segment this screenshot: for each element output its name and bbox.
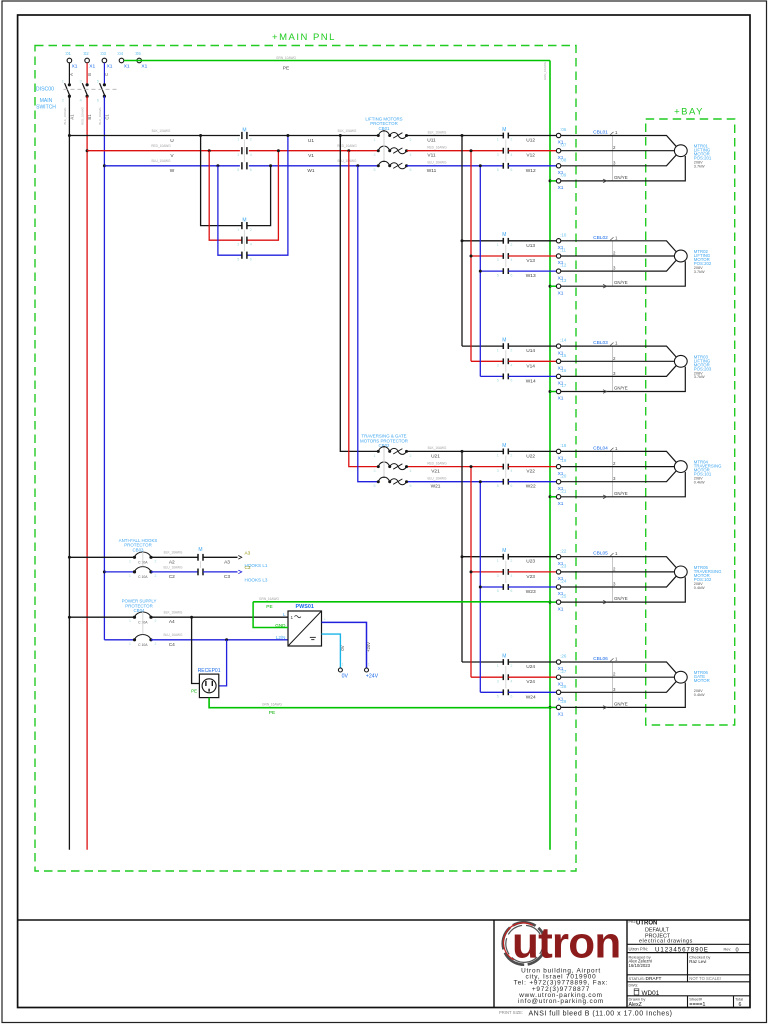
svg-text:3: 3 [497, 679, 499, 683]
svg-text:1: 1 [497, 559, 499, 563]
GN/YE arrow [603, 495, 607, 499]
wire V12 [508, 150, 556, 152]
svg-text:5: 5 [497, 484, 499, 488]
svg-text:2: 2 [410, 454, 412, 458]
svg-text::14: :14 [560, 338, 567, 343]
svg-text:U24: U24 [526, 664, 535, 670]
svg-text:3: 3 [237, 153, 239, 157]
svg-text::29: :29 [560, 699, 567, 704]
svg-text:M: M [502, 443, 506, 449]
svg-text:4: 4 [250, 242, 252, 246]
svg-text:V24: V24 [526, 679, 535, 685]
svg-text:1: 1 [497, 138, 499, 142]
svg-text::13: :13 [560, 278, 567, 283]
node W drop to M2 [216, 164, 219, 167]
svg-text:1: 1 [374, 454, 376, 458]
svg-text:RED_10AWG: RED_10AWG [81, 106, 85, 124]
contactor M2 contact pole 1/2 [241, 222, 243, 229]
svg-text:CBL05: CBL05 [593, 551, 608, 557]
svg-text:V: V [170, 153, 174, 159]
contactor M pole 1/2 for MTR05 [502, 554, 504, 560]
svg-text:RED_16AWG: RED_16AWG [427, 461, 447, 465]
svg-text:6: 6 [510, 589, 512, 593]
wire A1 (black vertical feeder) [68, 96, 70, 850]
svg-text::23: :23 [560, 564, 567, 569]
wire PE (green) vertical drop [549, 61, 551, 850]
cable CBL06 marker [612, 662, 614, 707]
wire W24 feed from riser [480, 691, 503, 693]
svg-text:3: 3 [79, 79, 82, 84]
svg-text:5: 5 [497, 589, 499, 593]
utron logo ring [498, 918, 550, 970]
wire U after M1 [249, 135, 378, 137]
motor MTR05 [674, 566, 687, 578]
wire W14 [508, 375, 556, 377]
svg-text:1: 1 [374, 138, 376, 142]
svg-text:C3: C3 [224, 574, 230, 580]
svg-text::26: :26 [560, 654, 567, 659]
svg-text::06: :06 [560, 127, 567, 132]
wire A3 with arrow HOOKS L1 [203, 556, 238, 558]
svg-text:M: M [502, 127, 506, 133]
riser red CB02 group [470, 467, 472, 678]
svg-text:1: 1 [615, 235, 618, 240]
svg-text:+MAIN PNL: +MAIN PNL [272, 32, 336, 43]
svg-text:2: 2 [155, 574, 157, 578]
svg-text:6: 6 [510, 273, 512, 277]
svg-text:1: 1 [497, 664, 499, 668]
svg-text:4: 4 [410, 153, 412, 157]
svg-text:M: M [198, 547, 202, 553]
node C4 branch to receptacle [225, 638, 228, 641]
svg-text:1: 1 [368, 663, 370, 667]
node A1-U junction [68, 134, 71, 137]
wire CBL03-1 to motor [561, 346, 676, 357]
breaker pole 2 arc [377, 465, 380, 468]
svg-text:CBL01: CBL01 [593, 130, 608, 136]
cable CBL02 marker [612, 241, 614, 286]
contactor M pole 5/6 for MTR03 [502, 374, 504, 380]
contactor M1 linkage [243, 140, 245, 162]
svg-text:NOT TO SCALE!: NOT TO SCALE! [689, 976, 721, 981]
contactor M pole 1/2 for MTR03 [502, 343, 504, 349]
svg-text::15: :15 [560, 353, 567, 358]
svg-text:3: 3 [497, 574, 499, 578]
wire W13 feed from riser [480, 270, 503, 272]
wire CBL03-3 to motor [561, 366, 676, 377]
utron logo red arc [496, 916, 549, 969]
wire CBL06-3 to motor [561, 682, 676, 693]
wire CBL06-1 to motor [561, 662, 676, 673]
node C1-W junction [103, 164, 106, 167]
svg-text:A1: A1 [69, 114, 74, 120]
svg-text:A3: A3 [224, 559, 230, 565]
wire CBL04-1 to motor [561, 451, 676, 462]
svg-text:CBL06: CBL06 [593, 656, 608, 662]
wire W13 [508, 270, 556, 272]
svg-text:BLK_16AWG: BLK_16AWG [164, 611, 183, 615]
node PE tap MTR03 [549, 390, 552, 393]
node A4 branch to receptacle [190, 616, 193, 619]
svg-text::02: :02 [83, 51, 90, 56]
node PE tap MTR05 [549, 601, 552, 604]
svg-text:V21: V21 [431, 469, 440, 475]
wire U12 feed from breaker [407, 135, 504, 137]
wire V13 [508, 255, 556, 257]
svg-text:BLK_16AWG: BLK_16AWG [428, 130, 447, 134]
svg-text:V1: V1 [308, 153, 314, 159]
wire CBL04-3 to motor [561, 471, 676, 482]
svg-text:1: 1 [615, 130, 618, 135]
svg-text:CBL03: CBL03 [593, 340, 608, 346]
wire W24 [508, 691, 556, 693]
svg-text:ANSI full bleed B (11.00 x 17.: ANSI full bleed B (11.00 x 17.00 Inches) [529, 1011, 673, 1018]
svg-text:-: - [324, 628, 326, 633]
svg-text:X1: X1 [72, 64, 78, 70]
svg-text::16: :16 [560, 368, 567, 373]
wire C1 to CB04 pole2 [104, 639, 134, 641]
svg-text:0: 0 [736, 947, 739, 953]
contactor M pole 1/2 for MTR01 [502, 133, 504, 139]
wire U22 [508, 450, 556, 452]
svg-text:GRN_10AWG: GRN_10AWG [543, 61, 547, 80]
svg-text:1: 1 [129, 574, 131, 578]
svg-text:1: 1 [237, 228, 239, 232]
wire U24 feed from riser [462, 661, 503, 663]
svg-text:2: 2 [510, 138, 512, 142]
svg-text::27: :27 [560, 669, 567, 674]
disconnect linkage (dashed) [64, 88, 117, 90]
receptacle PE wire down and green bus to bay [209, 698, 550, 708]
terminal +24V [365, 668, 369, 672]
svg-text:M: M [502, 653, 506, 659]
svg-text::12: :12 [560, 263, 567, 268]
svg-text:GRN_16AWG: GRN_16AWG [259, 597, 279, 601]
node A1 tap to CB04 [68, 616, 71, 619]
circuit breaker CB03 pole 1 [133, 556, 136, 559]
svg-text:PE: PE [283, 65, 289, 71]
svg-text:BLK_16AWG: BLK_16AWG [164, 551, 183, 555]
disconnect pole A (DISC00) [68, 63, 70, 85]
svg-text:0V: 0V [342, 673, 349, 679]
wire A4 to PWS01 L [151, 616, 288, 618]
svg-text:Raz Levi: Raz Levi [689, 959, 706, 964]
svg-text:6: 6 [739, 1002, 742, 1008]
svg-text:5: 5 [237, 168, 239, 172]
svg-text:5: 5 [97, 79, 100, 84]
svg-text:1: 1 [497, 348, 499, 352]
svg-text:W13: W13 [526, 273, 536, 279]
svg-text:4: 4 [410, 469, 412, 473]
svg-text::05: :05 [135, 51, 142, 56]
svg-text:U12: U12 [526, 138, 535, 144]
svg-text:0.4kW: 0.4kW [694, 586, 705, 590]
svg-text::01: :01 [65, 51, 72, 56]
svg-text:BLK_10AWG: BLK_10AWG [63, 107, 67, 125]
node U1 tap to CB02 [339, 134, 342, 137]
wire W14 feed from riser [480, 375, 503, 377]
svg-text:1: 1 [615, 657, 618, 662]
contactor M pole hooks L3 [197, 569, 199, 576]
svg-text:6: 6 [410, 484, 412, 488]
svg-text:5: 5 [497, 379, 499, 383]
svg-text:C4: C4 [169, 642, 175, 648]
wire CBL04-GN/YE to motor [561, 472, 686, 497]
svg-text:W24: W24 [526, 694, 536, 700]
svg-text:2: 2 [613, 356, 616, 361]
cable CBL01 marker [612, 136, 614, 181]
svg-text:L: L [283, 612, 286, 617]
svg-text:W: W [170, 168, 175, 174]
wire V14 feed from riser [471, 360, 503, 362]
wire V22 feed from breaker [407, 466, 504, 468]
breaker pole 2 arc [377, 149, 380, 152]
svg-text:MOTOR: MOTOR [694, 678, 710, 683]
node M2 blue joins U bus [286, 134, 289, 137]
wire C2 [151, 571, 198, 573]
svg-text:UTRON: UTRON [636, 921, 657, 927]
svg-text:Rev:: Rev: [724, 947, 732, 951]
svg-text:V12: V12 [526, 153, 535, 159]
svg-text:0.4kW: 0.4kW [694, 481, 705, 485]
wire V after M1 [249, 150, 378, 152]
svg-text:A3: A3 [245, 550, 251, 555]
wire CBL06-2 to motor [561, 676, 675, 678]
svg-text::19: :19 [560, 458, 567, 463]
circuit breaker CB03 pole 2 [133, 570, 136, 573]
wire CBL05-3 to motor [561, 576, 676, 587]
svg-text:BLU_16AWG: BLU_16AWG [427, 477, 447, 481]
svg-text:3: 3 [237, 242, 239, 246]
svg-text::20: :20 [560, 473, 567, 478]
wire C3 with arrow HOOKS L3 [203, 571, 238, 573]
circuit breaker CB04 pole 1 [133, 616, 136, 619]
svg-text:GRN_10AWG: GRN_10AWG [276, 56, 296, 60]
title block grid lines [627, 943, 750, 945]
svg-text:W11: W11 [427, 168, 437, 174]
wire CBL06-GN/YE to motor [561, 683, 686, 708]
contactor M2 linkage [243, 230, 245, 252]
svg-text:PWS01: PWS01 [296, 604, 314, 610]
node B1-V junction [86, 149, 89, 152]
svg-text:1: 1 [615, 341, 618, 346]
svg-text:A4: A4 [169, 619, 175, 625]
breaker pole 1 arc [377, 450, 380, 453]
svg-text:PRINT SIZE:: PRINT SIZE: [499, 1010, 523, 1015]
wire CBL05-2 to motor [561, 571, 675, 573]
contactor M1 contact pole 5/6 [241, 162, 243, 169]
contactor M pole 5/6 for MTR04 [502, 479, 504, 485]
contactor M linkage for MTR05 [505, 561, 507, 583]
svg-text:W1: W1 [307, 168, 315, 174]
cable CBL04 marker [612, 451, 614, 496]
svg-text:X1: X1 [558, 606, 564, 612]
wire V22 [508, 466, 556, 468]
disconnect pole B (DISC00) [86, 63, 88, 85]
svg-text:1: 1 [129, 619, 131, 623]
svg-text:M: M [502, 338, 506, 344]
motor MTR04 [674, 461, 687, 473]
node PE tap MTR06 [549, 706, 552, 709]
wire V23 feed from riser [471, 571, 503, 573]
contactor M pole 3/4 for MTR01 [502, 148, 504, 154]
svg-text:====1: ====1 [689, 1002, 705, 1008]
svg-text:3.7kW: 3.7kW [694, 375, 705, 379]
wire U13 [508, 240, 556, 242]
wire W23 feed from riser [480, 586, 503, 588]
node W1 tap to CB02 [356, 164, 359, 167]
svg-text:RECEP01: RECEP01 [198, 668, 221, 674]
svg-text:GRN_16AWG: GRN_16AWG [262, 703, 282, 707]
svg-text::04: :04 [117, 51, 124, 56]
contactor M linkage for MTR01 [505, 140, 507, 162]
svg-text:GN/YE: GN/YE [614, 596, 628, 601]
wire CBL04-2 to motor [561, 466, 675, 468]
svg-text:4: 4 [79, 98, 82, 103]
svg-text:W12: W12 [526, 168, 536, 174]
svg-text:5: 5 [497, 168, 499, 172]
svg-text:U13: U13 [526, 243, 535, 249]
svg-text:2: 2 [155, 642, 157, 646]
contactor M pole 3/4 for MTR05 [502, 569, 504, 575]
svg-text:C 10A: C 10A [138, 575, 148, 579]
node V1 tap to CB02 [347, 149, 350, 152]
node PE tap MTR02 [549, 285, 552, 288]
wire CBL01-1 to motor [561, 136, 676, 147]
svg-text::07: :07 [560, 142, 567, 147]
svg-text:X1: X1 [558, 396, 564, 402]
svg-text:X1: X1 [89, 64, 95, 70]
svg-text::09: :09 [560, 173, 567, 178]
svg-text:3: 3 [374, 469, 376, 473]
svg-text:MAIN: MAIN [40, 98, 53, 104]
svg-text:+BAY: +BAY [674, 107, 704, 118]
svg-text:U21: U21 [431, 453, 440, 459]
riser black CB01 group [461, 136, 463, 347]
svg-text:6: 6 [510, 484, 512, 488]
svg-text:3: 3 [497, 258, 499, 262]
svg-text:RED_16AWG: RED_16AWG [427, 146, 447, 150]
svg-text:Utron P/N:: Utron P/N: [629, 947, 649, 952]
svg-text:6: 6 [510, 168, 512, 172]
svg-text:info@utron-parking.com: info@utron-parking.com [518, 998, 604, 1005]
svg-text:X1: X1 [141, 64, 147, 70]
svg-text:A: A [69, 73, 74, 76]
terminal 0V [338, 668, 342, 672]
node V drop to M2 [208, 149, 211, 152]
svg-text:+24V: +24V [366, 673, 379, 679]
svg-text::25: :25 [560, 594, 567, 599]
GN/YE arrow [603, 706, 607, 710]
wire W1 to CB02 (blue) [358, 166, 378, 482]
svg-text:1: 1 [615, 446, 618, 451]
contactor M pole 1/2 for MTR04 [502, 449, 504, 455]
svg-text::28: :28 [560, 684, 567, 689]
wire PE stub to terminal MTR03 [550, 391, 556, 393]
svg-text:U14: U14 [526, 348, 535, 354]
svg-text:BLK_10AWG: BLK_10AWG [338, 129, 357, 133]
svg-text:16/10/2023: 16/10/2023 [629, 963, 651, 968]
svg-text:3: 3 [613, 476, 616, 481]
svg-text:BLU_16AWG: BLU_16AWG [163, 565, 183, 569]
svg-text:3: 3 [497, 469, 499, 473]
riser blue CB02 group [479, 482, 481, 693]
svg-text:GN/YE: GN/YE [614, 280, 628, 285]
svg-text::10: :10 [560, 232, 567, 237]
node A1 tap to CB03 [68, 556, 71, 559]
breaker linkage [383, 447, 385, 476]
wire M2 blue branch (W to U swap) [218, 136, 288, 256]
svg-text:PE: PE [191, 689, 197, 694]
wire W after M1 [249, 165, 378, 167]
svg-text:C3: C3 [245, 565, 251, 570]
wire PE stub to terminal MTR05 [550, 601, 556, 603]
breaker pole 1 arc [377, 134, 380, 137]
svg-text:2: 2 [250, 138, 252, 142]
contactor M pole 3/4 for MTR06 [502, 674, 504, 680]
contactor M pole 5/6 for MTR01 [502, 163, 504, 169]
wire PE stub to terminal MTR02 [550, 285, 556, 287]
svg-text:2: 2 [510, 664, 512, 668]
svg-text:4: 4 [510, 153, 512, 157]
svg-text:3: 3 [374, 153, 376, 157]
wire V24 feed from riser [471, 676, 503, 678]
svg-text:6: 6 [510, 695, 512, 699]
contactor M pole 1/2 for MTR02 [502, 238, 504, 244]
wire CBL01-GN/YE to motor [561, 156, 686, 181]
wire W23 [508, 586, 556, 588]
wire W22 [508, 481, 556, 483]
GN/YE arrow [603, 284, 607, 288]
disconnect pole C (DISC00) [103, 63, 105, 85]
svg-text::11: :11 [560, 248, 566, 253]
contactor M hooks linkage [200, 561, 202, 568]
wire B1 (red vertical feeder) [86, 96, 88, 850]
green PE bus to PWS01 [253, 601, 550, 603]
svg-text:3: 3 [613, 371, 616, 376]
svg-text:DWG:: DWG: [629, 984, 639, 988]
svg-text:U1: U1 [308, 138, 314, 144]
wire U13 feed from riser [462, 240, 503, 242]
svg-text:U1234567890E: U1234567890E [655, 946, 709, 953]
svg-text:C 10A: C 10A [138, 643, 148, 647]
svg-text:2: 2 [613, 461, 616, 466]
svg-text:electrical drawings: electrical drawings [639, 938, 693, 944]
motor MTR03 [674, 355, 687, 367]
wire PE stub to terminal MTR04 [550, 496, 556, 498]
GN/YE arrow [603, 179, 607, 183]
svg-text:2: 2 [155, 619, 157, 623]
PWS01 DC mark [310, 636, 316, 638]
wire V1 to CB02 (red) [349, 151, 378, 467]
svg-text:V11: V11 [427, 153, 436, 159]
svg-text:+: + [324, 617, 327, 622]
wire C4 down to receptacle [219, 640, 227, 686]
wire U14 [508, 345, 556, 347]
breaker pole 3 arc [377, 164, 380, 167]
wire U23 feed from riser [462, 556, 503, 558]
svg-text:B: B [87, 73, 92, 76]
svg-text:3.7kW: 3.7kW [694, 165, 705, 169]
contactor M pole 5/6 for MTR06 [502, 689, 504, 695]
svg-text:C2: C2 [169, 574, 175, 580]
svg-text::08: :08 [560, 157, 567, 162]
svg-text:CBL02: CBL02 [593, 235, 608, 241]
wire A1 to CB03 pole1 [69, 556, 134, 558]
svg-text:1: 1 [615, 551, 618, 556]
wire C4 to PWS01 L2/N [151, 639, 288, 641]
svg-text:DRAFT: DRAFT [646, 976, 662, 982]
